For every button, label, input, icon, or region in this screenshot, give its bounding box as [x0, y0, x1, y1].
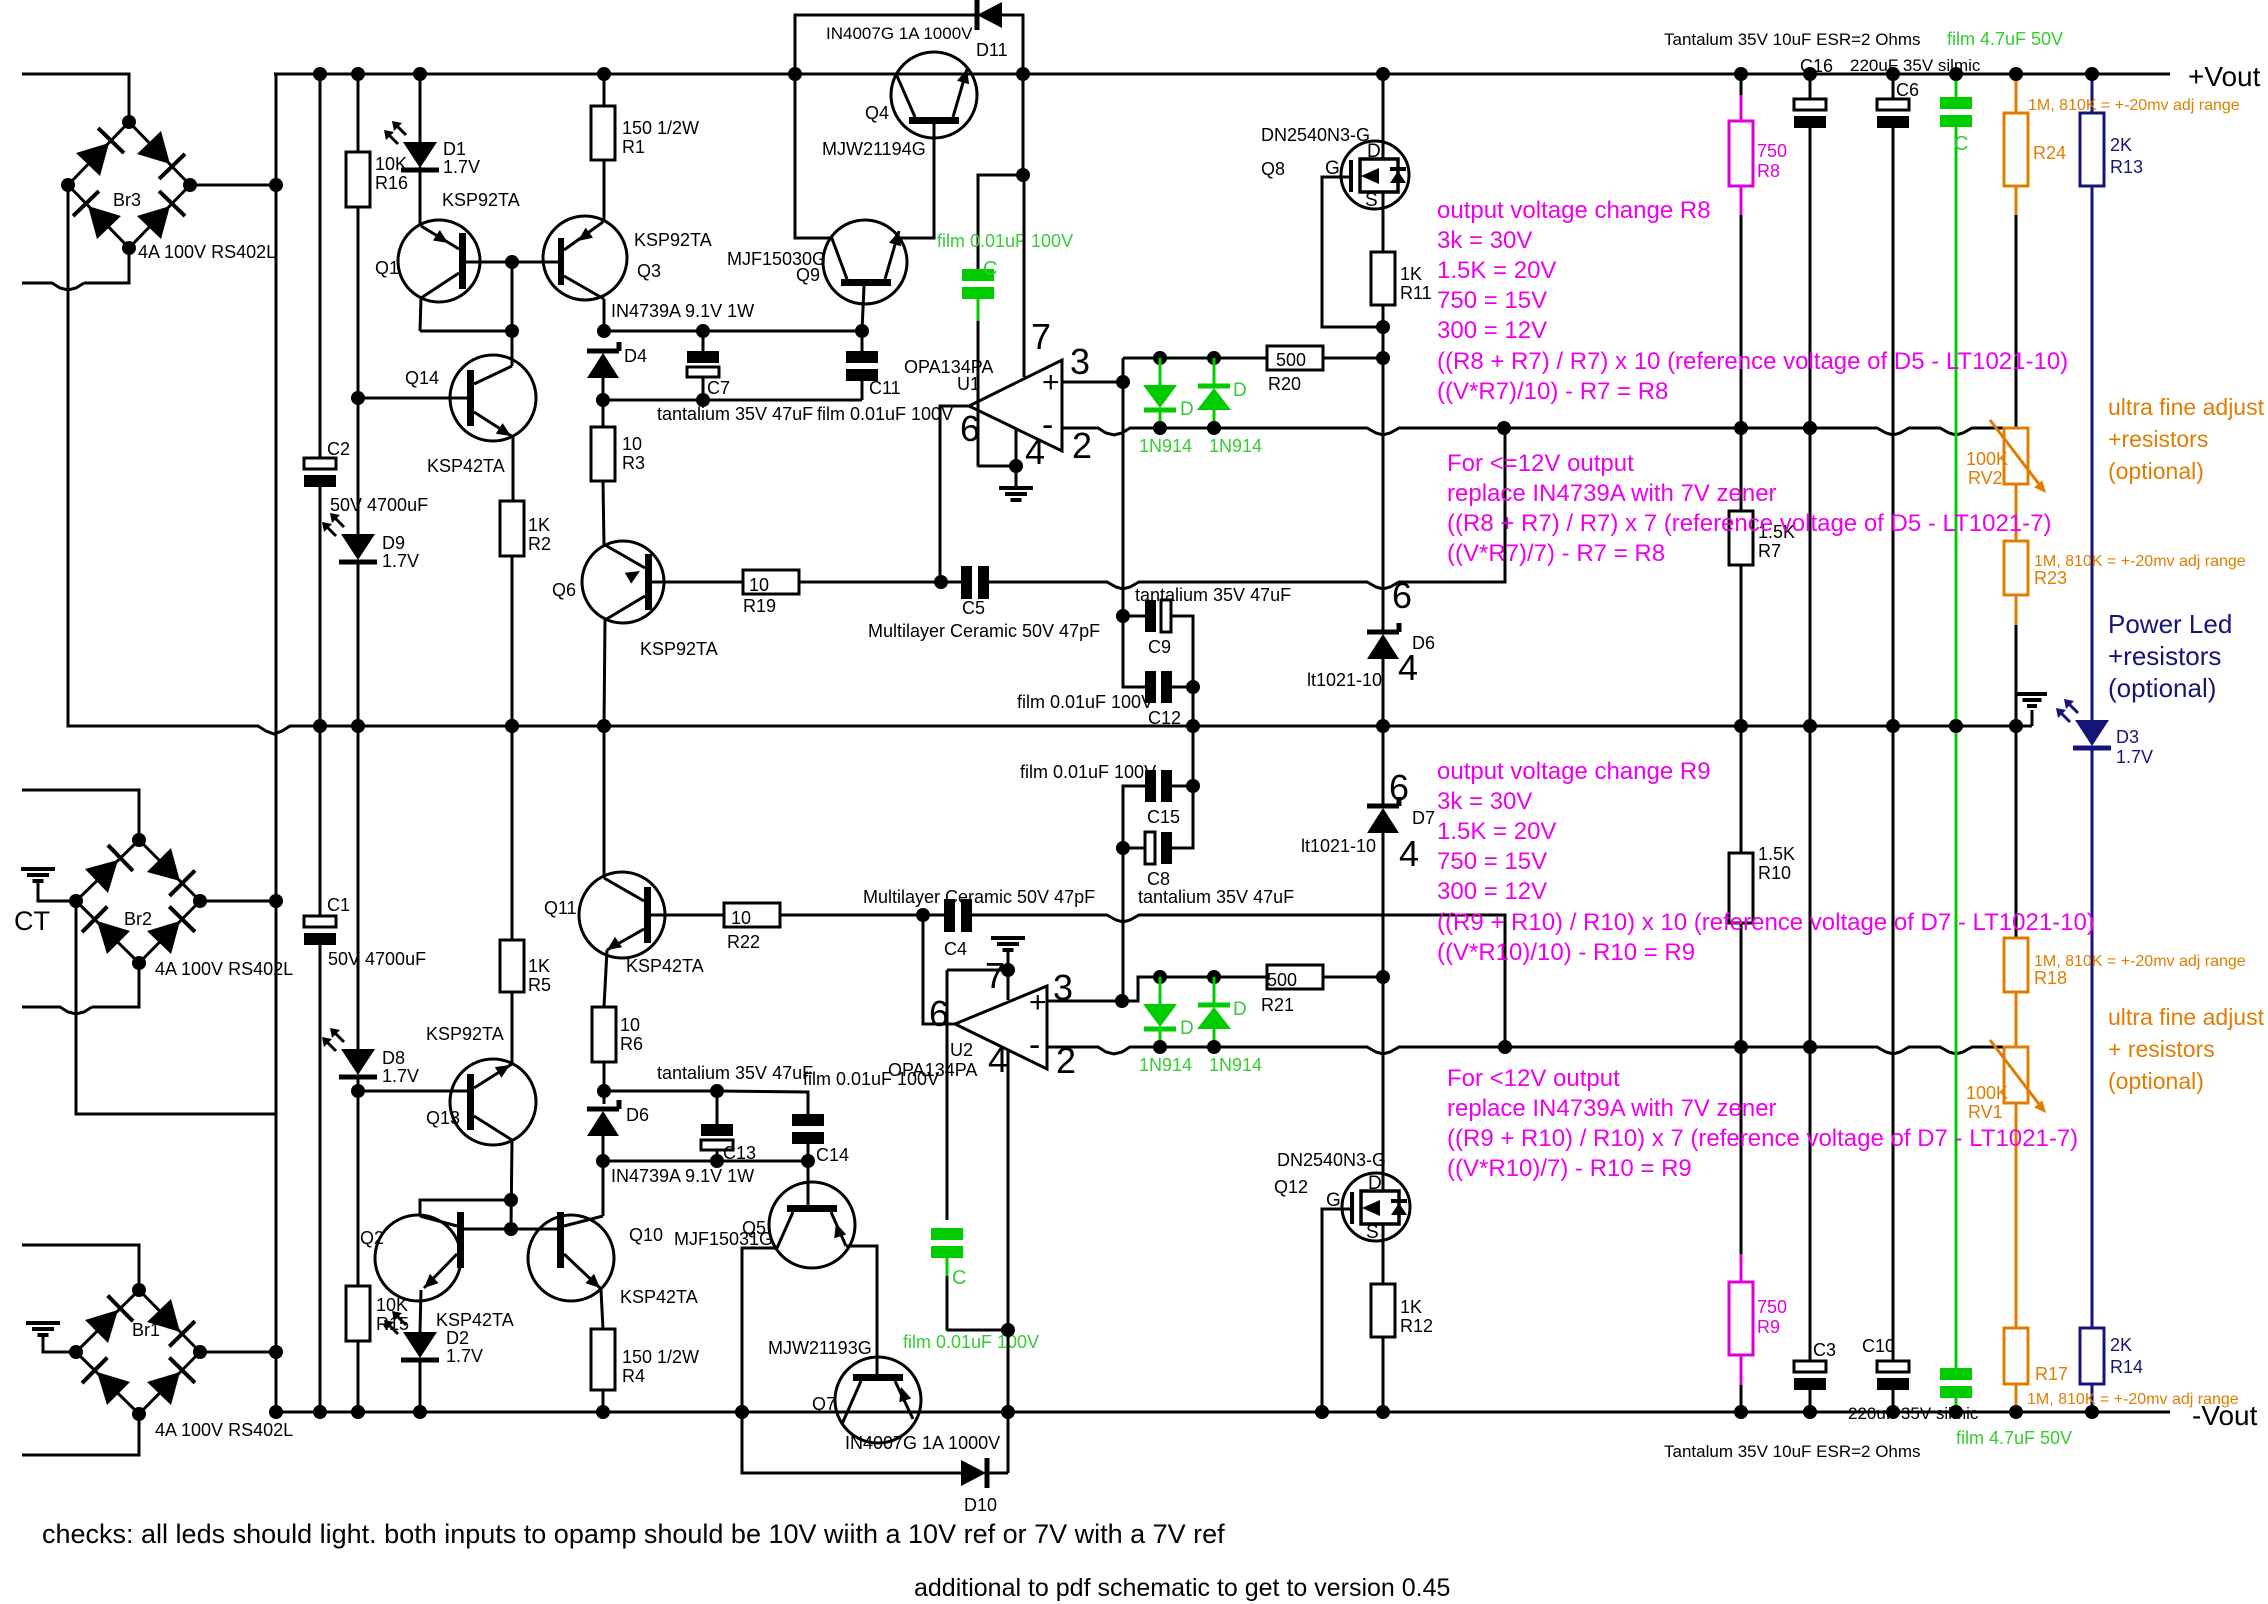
svg-text:7: 7 [985, 955, 1005, 996]
svg-text:KSP42TA: KSP42TA [436, 1310, 514, 1330]
svg-text:MJW21193G: MJW21193G [768, 1338, 872, 1358]
svg-text:film 0.01uF 100V: film 0.01uF 100V [1017, 692, 1153, 712]
wire Q11 emitter to R6 [604, 950, 607, 1007]
wire transformer to Br1 top [22, 1245, 139, 1290]
svg-text:IN4007G 1A 1000V: IN4007G 1A 1000V [826, 24, 973, 43]
wire Q3 emitter / D4 / C7 / C11 node wire [604, 330, 862, 333]
svg-text:R2: R2 [528, 534, 551, 554]
wire Br1 output to raw column [200, 1351, 276, 1354]
svg-text:C12: C12 [1148, 708, 1181, 728]
svg-text:C10: C10 [1862, 1336, 1895, 1356]
svg-text:film 0.01uF 100V: film 0.01uF 100V [817, 404, 953, 424]
svg-text:((V*R7)/10) - R7 = R8: ((V*R7)/10) - R7 = R8 [1437, 378, 1668, 405]
resistor R11 [1371, 252, 1395, 305]
svg-text:RV1: RV1 [1968, 1102, 2003, 1122]
wire Q2 collector loop [420, 1200, 511, 1216]
led D8 [341, 1049, 375, 1075]
resistor R15 [346, 1286, 370, 1341]
svg-text:R24: R24 [2033, 143, 2066, 163]
pin 4 of U1 to ground [1015, 429, 1018, 488]
zener diode D6 lt1021-10 (reference) [1367, 630, 1399, 635]
node Q14 base junction [351, 391, 365, 405]
svg-text:CT: CT [14, 906, 50, 936]
pin 7 of U1 [1023, 175, 1026, 377]
led D1 [403, 142, 437, 168]
svg-text:10: 10 [731, 908, 751, 928]
svg-text:100K: 100K [1966, 449, 2008, 469]
mosfet Q8 DN2540N3-G [1341, 141, 1409, 209]
svg-text:150 1/2W: 150 1/2W [622, 1347, 699, 1367]
svg-text:tantalium 35V 47uF: tantalium 35V 47uF [1138, 887, 1294, 907]
svg-text:((V*R10)/10) - R10 = R9: ((V*R10)/10) - R10 = R9 [1437, 939, 1695, 966]
svg-text:U1: U1 [957, 374, 980, 394]
diode 1N914 second (top pair) [1213, 358, 1216, 386]
svg-text:IN4007G 1A 1000V: IN4007G 1A 1000V [845, 1433, 1000, 1453]
wire R8 column [1740, 74, 1743, 95]
svg-text:10: 10 [749, 575, 769, 595]
svg-text:DN2540N3-G: DN2540N3-G [1277, 1150, 1386, 1170]
pin 3 wire of U2 [1047, 1000, 1122, 1003]
wire Br2 bottom AC lead with hop [92, 963, 139, 1007]
wire source node down to D6 with hops [1382, 358, 1385, 632]
led D3 (navy) [2075, 720, 2109, 746]
wire D11 left vertical to Q9 collector [795, 74, 830, 238]
node C3 column on lower adjust wire [1803, 1040, 1817, 1054]
node Br1 output junction [269, 1345, 283, 1359]
op-amp U2 OPA134PA [955, 986, 1047, 1069]
wire mid 0V rail left segment from Br3 [68, 185, 250, 726]
node lower zener wire left junction [596, 1154, 610, 1168]
svg-text:D10: D10 [964, 1495, 997, 1515]
svg-text:Multilayer Ceramic 50V 47pF: Multilayer Ceramic 50V 47pF [868, 621, 1100, 641]
node film cap top on +V rail [1949, 67, 1963, 81]
zener diode D6 IN4739A (negative regulator) [603, 1091, 606, 1104]
wire D7 node down to Q12 drain [1382, 977, 1385, 1173]
wire film cap column (green) [1955, 74, 1958, 97]
svg-text:2: 2 [1072, 425, 1092, 466]
node C16 top on +V rail [1803, 67, 1817, 81]
svg-text:+: + [1029, 986, 1047, 1019]
svg-text:-: - [1029, 1026, 1040, 1064]
svg-text:1.7V: 1.7V [382, 1066, 419, 1086]
node upper zener wire left junction [597, 1084, 611, 1098]
wire R3 to Q6 emitter [603, 481, 604, 545]
svg-text:R11: R11 [1400, 283, 1432, 303]
transistor Q5 MJF15031G [769, 1182, 855, 1268]
wire Q1 collector down to node wire [420, 298, 421, 331]
wire R23 to 0V rail [2015, 595, 2018, 625]
svg-text:50V 4700uF: 50V 4700uF [330, 495, 428, 515]
svg-text:750: 750 [1757, 1297, 1787, 1317]
svg-text:2K: 2K [2110, 135, 2132, 155]
wire C8 node down to U2 pin3 [1122, 848, 1125, 1001]
capacitor C14 film [792, 1114, 824, 1126]
capacitor C3 tantalum [1794, 1361, 1826, 1372]
node R15 on -V rail [351, 1405, 365, 1419]
svg-text:Q13: Q13 [426, 1108, 460, 1128]
svg-text:C16: C16 [1800, 56, 1833, 76]
wire C2 column [319, 74, 322, 458]
node pin3 junction [1116, 375, 1130, 389]
wire bottom -V rail [276, 1411, 2170, 1414]
svg-text:D8: D8 [382, 1048, 405, 1068]
svg-text:Q10: Q10 [629, 1225, 663, 1245]
svg-text:checks: all leds should light.: checks: all leds should light. both inpu… [42, 1519, 1225, 1549]
svg-text:Q8: Q8 [1261, 159, 1285, 179]
svg-text:6: 6 [929, 993, 949, 1034]
node C6 column on 0V rail [1886, 719, 1900, 733]
node R14 on -V rail [2085, 1405, 2099, 1419]
resistor R16 [346, 152, 370, 207]
svg-text:C7: C7 [707, 378, 730, 398]
wire film cap to U2 pin4 line [947, 1258, 1008, 1330]
transistor Q7 MJW21193G [835, 1357, 921, 1443]
wire Br1 bottom AC lead [22, 1414, 139, 1455]
svg-text:Br2: Br2 [124, 909, 152, 929]
transistor Q14 KSP42TA [450, 355, 536, 441]
wire Q5 base from zener node [807, 1161, 810, 1205]
wire Q1/Q14 collector node wire [420, 330, 512, 333]
node 1N914 d4 bottom [1207, 1040, 1221, 1054]
svg-text:Q14: Q14 [405, 368, 439, 388]
svg-text:10: 10 [620, 1015, 640, 1035]
svg-text:C15: C15 [1147, 807, 1180, 827]
wire R19 to C5 [799, 581, 961, 584]
node Q8 drain on +V rail [1376, 67, 1390, 81]
svg-text:R23: R23 [2034, 568, 2067, 588]
svg-text:MJF15031G: MJF15031G [674, 1229, 773, 1249]
pin 2 wire of U2 with hop [1047, 1047, 1160, 1054]
resistor R13 (navy) [2080, 113, 2104, 186]
svg-text:1.5K = 20V: 1.5K = 20V [1437, 257, 1556, 284]
svg-text:C2: C2 [327, 439, 350, 459]
svg-text:D: D [1233, 380, 1247, 401]
wire Q6 collector to 0V rail [604, 620, 605, 726]
svg-text:1M, 810K = +-20mv adj range: 1M, 810K = +-20mv adj range [2034, 953, 2246, 970]
svg-text:R6: R6 [620, 1034, 643, 1054]
resistor R5 [511, 726, 514, 940]
svg-text:film 0.01uF 100V: film 0.01uF 100V [937, 231, 1073, 251]
wire C6/C10 column [1892, 74, 1895, 99]
wire RV1 to R17 [2015, 1103, 2018, 1328]
wire C14 top branch [717, 1091, 808, 1114]
svg-text:3: 3 [1053, 967, 1073, 1008]
svg-text:(optional): (optional) [2108, 1068, 2204, 1094]
wire pin7 node to film cap (bottom) [946, 970, 949, 1220]
svg-text:150 1/2W: 150 1/2W [622, 118, 699, 138]
svg-text:R3: R3 [622, 453, 645, 473]
wire C4 to riser with hop [972, 915, 1470, 922]
svg-text:2: 2 [1056, 1040, 1076, 1081]
wire 0V rail to D7 [1382, 726, 1385, 806]
bridge rectifier Br3 [68, 122, 129, 185]
resistor R18 (orange) [2004, 938, 2028, 992]
node feedback riser junction [1497, 421, 1511, 435]
node -V rail left end [269, 1405, 283, 1419]
node D1 top on +V rail [413, 67, 427, 81]
capacitor C16 tantalum [1794, 99, 1826, 110]
svg-text:Q11: Q11 [544, 898, 577, 918]
node R10/R9 junction on lower adjust wire [1734, 1040, 1748, 1054]
svg-text:DN2540N3-G: DN2540N3-G [1261, 125, 1370, 145]
node C9 left junction [1116, 609, 1130, 623]
wire C12 right to 0V rail junction [1172, 687, 1193, 726]
wire R7 to 0V rail [1740, 565, 1743, 726]
wire Q13 collector down to Q2 collector wire [511, 1140, 512, 1229]
resistor R17 (orange) [2004, 1328, 2028, 1384]
svg-text:500: 500 [1267, 970, 1297, 990]
wire 0V rail to Q11 collector [603, 726, 606, 878]
svg-text:D1: D1 [443, 139, 466, 159]
svg-text:4: 4 [1398, 647, 1418, 688]
transistor Q4 MJW21194G [891, 52, 977, 138]
svg-text:7: 7 [1031, 316, 1051, 357]
wire R12 to -V rail [1382, 1337, 1385, 1412]
wire R22 to C4 [780, 914, 944, 917]
svg-text:6: 6 [1392, 575, 1412, 616]
svg-text:(optional): (optional) [2108, 458, 2204, 484]
wire Q12 source to R12 [1382, 1241, 1385, 1284]
svg-text:1.7V: 1.7V [446, 1346, 483, 1366]
svg-text:Q12: Q12 [1274, 1177, 1308, 1197]
node R4 on -V rail [596, 1405, 610, 1419]
pin 7 of U2 [1007, 970, 1010, 1000]
svg-text:+Vout: +Vout [2188, 61, 2261, 92]
node R8 top on +V rail [1734, 67, 1748, 81]
resistor R1 [591, 106, 615, 160]
svg-text:KSP42TA: KSP42TA [626, 956, 704, 976]
node Q4 collector on +V rail [1016, 67, 1030, 81]
svg-text:IN4739A 9.1V 1W: IN4739A 9.1V 1W [611, 301, 754, 321]
node R7 on 0V rail [1734, 719, 1748, 733]
wire R24 to RV2 [2015, 186, 2018, 215]
svg-text:IN4739A 9.1V 1W: IN4739A 9.1V 1W [611, 1166, 754, 1186]
resistor R10 [1740, 726, 1743, 853]
wire R2 bottom to 0V rail [511, 556, 514, 726]
transistor Q9 MJF15030G [823, 220, 907, 304]
svg-text:D: D [1180, 1018, 1194, 1039]
svg-text:replace IN4739A with 7V zener: replace IN4739A with 7V zener [1447, 1095, 1777, 1122]
wire 0V to R18 [2015, 726, 2018, 938]
svg-text:Q9: Q9 [796, 265, 820, 285]
svg-text:ultra fine adjust: ultra fine adjust [2108, 1004, 2265, 1030]
node 1N914 d2 bottom [1207, 421, 1221, 435]
node U2 pin3 junction [1115, 994, 1129, 1008]
node C4 riser junction on minus wire [1498, 1040, 1512, 1054]
svg-text:1N914: 1N914 [1209, 1055, 1262, 1075]
wire Q12 gate to -V rail [1322, 1209, 1342, 1412]
diode D10 IN4007G [961, 1460, 986, 1486]
svg-text:100K: 100K [1966, 1083, 2008, 1103]
node C1 bottom on -V rail [313, 1405, 327, 1419]
capacitor C15 film [1172, 785, 1193, 788]
node C16 column on 0V rail [1803, 719, 1817, 733]
svg-text:lt1021-10: lt1021-10 [1301, 836, 1376, 856]
wire Q6 base to R19 [652, 581, 743, 584]
svg-text:300 = 12V: 300 = 12V [1437, 317, 1547, 344]
node R17 on -V rail [2009, 1405, 2023, 1419]
node film cap bottom on -V rail [1949, 1405, 1963, 1419]
svg-text:1K: 1K [1400, 264, 1422, 284]
svg-text:S: S [1365, 190, 1378, 211]
node film column on 0V rail [1949, 719, 1963, 733]
wire R8 to minus wire junction [1740, 215, 1743, 428]
svg-text:R22: R22 [727, 932, 760, 952]
node C11 top / Q9 base junction [855, 324, 869, 338]
node D11 left on +V rail [788, 67, 802, 81]
wire R1 top to rail [603, 74, 606, 106]
ground symbol at Br1 [26, 1321, 60, 1325]
transistor Q3 KSP92TA [543, 216, 627, 300]
svg-text:1N914: 1N914 [1139, 436, 1192, 456]
svg-text:film 0.01uF 100V: film 0.01uF 100V [903, 1332, 1039, 1352]
capacitor film 4.7uF top [1940, 97, 1972, 109]
svg-text:3k = 30V: 3k = 30V [1437, 227, 1532, 254]
wire R4 to -V rail [602, 1390, 605, 1412]
svg-text:Q3: Q3 [637, 261, 661, 281]
svg-text:film 0.01uF 100V: film 0.01uF 100V [1020, 762, 1156, 782]
wire Q14 emitter to R2 [512, 437, 515, 501]
wire R21 to D7 node [1323, 976, 1383, 979]
node D2 on -V rail [413, 1405, 427, 1419]
pin 2 wire of U1 with hop [1062, 428, 1160, 435]
node 1N914 d4 top [1207, 970, 1221, 984]
node 1N914 d1 top [1153, 351, 1167, 365]
node R12 on -V rail [1376, 1405, 1390, 1419]
svg-text:KSP92TA: KSP92TA [640, 639, 718, 659]
resistor R14 (navy) [2080, 1328, 2104, 1384]
wire upper zener node wire [604, 1091, 717, 1124]
svg-text:R1: R1 [622, 137, 645, 157]
svg-text:1.7V: 1.7V [382, 551, 419, 571]
svg-text:Q2: Q2 [360, 1228, 384, 1248]
node Q2 collector tie [504, 1193, 518, 1207]
svg-text:R18: R18 [2034, 968, 2067, 988]
svg-text:1K: 1K [1400, 1297, 1422, 1317]
node D9 bottom on 0V rail [351, 719, 365, 733]
svg-text:+resistors: +resistors [2108, 426, 2208, 452]
svg-text:R4: R4 [622, 1366, 645, 1386]
wire lower zener node wire [603, 1160, 808, 1163]
potentiometer RV2 100K (orange) [2004, 428, 2028, 484]
node C8 left junction [1116, 841, 1130, 855]
svg-text:+resistors: +resistors [2108, 641, 2221, 671]
resistor R22 [724, 903, 780, 927]
ground at U2 pin 7 [991, 936, 1025, 940]
svg-text:D4: D4 [624, 346, 647, 366]
node C14 bottom / Q5 base junction [801, 1154, 815, 1168]
pin 6 wire of U2 from C4 node [923, 915, 955, 1024]
resistor R4 [591, 1329, 615, 1390]
svg-text:C14: C14 [816, 1145, 849, 1165]
wire top +V rail left segment [22, 74, 129, 122]
svg-text:film 4.7uF 50V: film 4.7uF 50V [1956, 1428, 2072, 1448]
svg-text:R5: R5 [528, 975, 551, 995]
node D6 ground on 0V rail [1376, 719, 1390, 733]
svg-text:+: + [1042, 366, 1060, 399]
wire Q9 base down to node wire [862, 286, 864, 331]
svg-text:U2: U2 [950, 1040, 973, 1060]
wire Br2 left corner down and right to raw column [76, 901, 276, 1114]
node Q1-Q3 base junction [505, 255, 519, 269]
svg-text:lt1021-10: lt1021-10 [1307, 670, 1382, 690]
wire C1 column [319, 726, 322, 916]
svg-text:tantalium 35V 47uF: tantalium 35V 47uF [1135, 585, 1291, 605]
diode D11 IN4007G [977, 2, 1002, 28]
ground stub at 0V rail right end [2031, 710, 2034, 726]
wire R6 to zener node [603, 1062, 606, 1091]
svg-text:C6: C6 [1896, 80, 1919, 100]
svg-text:C4: C4 [944, 939, 967, 959]
node C10 on -V rail [1886, 1405, 1900, 1419]
capacitor C11 film [861, 331, 864, 351]
capacitor C1 [304, 916, 336, 927]
node pin7 wire junction [1016, 168, 1030, 182]
svg-text:4A 100V RS402L: 4A 100V RS402L [155, 1420, 293, 1440]
svg-text:Q4: Q4 [865, 103, 889, 123]
capacitor C2 [304, 458, 336, 469]
svg-text:(optional): (optional) [2108, 673, 2216, 703]
transistor Q6 KSP92TA [582, 541, 664, 623]
node C13 bottom junction [710, 1154, 724, 1168]
wire pin3 node down to C9 [1122, 382, 1125, 616]
wire R17 to -V rail [2015, 1384, 2018, 1412]
svg-text:tantalium 35V 47uF: tantalium 35V 47uF [657, 404, 813, 424]
svg-text:2K: 2K [2110, 1335, 2132, 1355]
svg-text:D: D [1368, 1173, 1382, 1194]
svg-text:C: C [983, 258, 997, 280]
wire pin3 to diode top wire (bottom) [1122, 977, 1268, 1001]
wire Q10 collector up to zener wire [602, 1161, 605, 1216]
node C6 top on +V rail [1886, 67, 1900, 81]
bridge rectifier Br2 [76, 840, 139, 901]
wire D11 loop [795, 15, 976, 74]
wire diode top wire to R20 [1123, 357, 1268, 360]
svg-text:film 4.7uF 50V: film 4.7uF 50V [1947, 29, 2063, 49]
svg-text:750 = 15V: 750 = 15V [1437, 848, 1547, 875]
svg-text:D11: D11 [976, 40, 1008, 60]
wire Q2 emitter to D2 [420, 1290, 421, 1332]
node C3 on -V rail [1803, 1405, 1817, 1419]
wire D4/C7/C11 bottom node wire [603, 399, 862, 402]
svg-text:1K: 1K [528, 515, 550, 535]
node D7 bottom junction with R21 wire [1376, 970, 1390, 984]
svg-text:1M, 810K = +-20mv adj range: 1M, 810K = +-20mv adj range [2034, 553, 2246, 570]
svg-text:R10: R10 [1758, 863, 1791, 883]
node Q14 collector on node wire [505, 324, 519, 338]
wire Q3 emitter down to node wire [603, 299, 606, 331]
svg-text:Multilayer Ceramic 50V 47pF: Multilayer Ceramic 50V 47pF [863, 887, 1095, 907]
node U2 pin4 film cap junction [1001, 1323, 1015, 1337]
svg-text:R17: R17 [2035, 1364, 2068, 1384]
led D9 [341, 534, 375, 560]
svg-text:For <=12V output: For <=12V output [1447, 450, 1634, 477]
pin 6 wire of U1 [940, 406, 969, 582]
svg-text:C9: C9 [1148, 637, 1171, 657]
svg-text:Br1: Br1 [132, 1320, 160, 1340]
node C13 top junction [710, 1084, 724, 1098]
wire D2 to -V rail [419, 1360, 422, 1412]
node Q6 collector on 0V rail [597, 719, 611, 733]
wire minus input wire (bottom) to adjust network with hops [1160, 1047, 2006, 1054]
svg-text:Power Led: Power Led [2108, 609, 2232, 639]
wire C4 riser [1470, 915, 1505, 1047]
svg-text:C3: C3 [1813, 1340, 1836, 1360]
wire Br2 output to raw column [200, 900, 276, 903]
resistor R19 [743, 570, 799, 594]
wire pin7 node to film cap [978, 175, 1023, 269]
wire R13 column (navy) [2091, 74, 2094, 113]
